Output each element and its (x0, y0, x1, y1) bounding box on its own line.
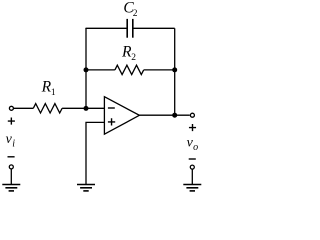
wire top to capacitor C2 left plate (86, 27, 127, 30)
input terminal circle (9, 106, 13, 110)
output lower terminal circle (190, 165, 194, 169)
resistor R2 (115, 65, 144, 74)
label vi plus sign (8, 118, 15, 125)
wire R2 left (86, 69, 115, 71)
node A junction dot (inverting input) (84, 106, 89, 111)
wire left feedback vertical (85, 28, 87, 108)
node B junction dot (R2 left) (84, 67, 89, 72)
wire noninverting input (86, 122, 104, 184)
label vo plus sign (189, 124, 196, 131)
node C junction dot (R2 right) (172, 67, 177, 72)
resistor R1 (33, 104, 62, 113)
wire output lower stub (191, 169, 193, 184)
input lower terminal circle (9, 165, 13, 169)
output terminal circle (190, 113, 194, 117)
svg-text:o: o (193, 142, 198, 153)
svg-text:2: 2 (133, 9, 138, 19)
svg-text:1: 1 (51, 88, 56, 98)
wire capacitor C2 right plate to right vertical (133, 27, 175, 29)
capacitor C2 (127, 19, 133, 38)
node D junction dot (output) (172, 113, 177, 118)
wire op-amp output (139, 114, 189, 116)
wire R2 right (144, 69, 175, 71)
label vo minus sign (189, 158, 196, 160)
wire right feedback vertical (174, 28, 176, 115)
svg-text:i: i (12, 139, 15, 150)
ground (op-amp) (77, 185, 95, 191)
wire input terminal to R1 (14, 107, 34, 109)
op-amp U1 (104, 97, 139, 135)
wire R1 to inverting input (62, 107, 104, 109)
ground (vi) (2, 185, 20, 191)
svg-text:2: 2 (131, 53, 136, 63)
op-amp U1 plus sign (108, 118, 115, 125)
ground (vo) (183, 185, 201, 191)
op-amp U1 minus sign (108, 107, 115, 109)
label vi minus sign (8, 156, 15, 158)
wire input lower stub (10, 169, 12, 184)
